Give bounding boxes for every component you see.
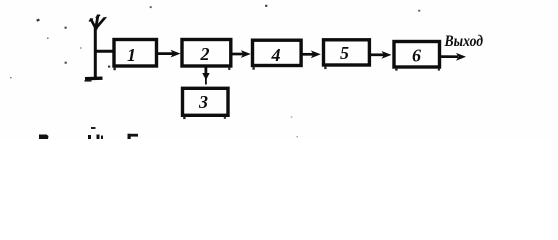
svg-text:3: 3 xyxy=(198,92,208,112)
svg-text:Выход: Выход xyxy=(444,33,483,50)
svg-text:4: 4 xyxy=(271,45,281,65)
noise speck 8 xyxy=(265,5,267,7)
box 2 (mixer) xyxy=(182,40,231,67)
wire output xyxy=(440,55,458,58)
noise speck 3 xyxy=(47,38,49,39)
scan nub box6 corner xyxy=(395,68,397,71)
ground xyxy=(85,76,103,80)
scan nub box3 left corner xyxy=(183,117,185,120)
noise speck 10 xyxy=(291,116,293,117)
noise speck 1 xyxy=(36,18,40,21)
noise speck 9 xyxy=(418,10,420,12)
wire antenna to box 1 xyxy=(94,50,114,53)
wire box1 to box2 xyxy=(157,52,174,55)
noise speck 5 xyxy=(65,62,67,64)
wire box2 to box4 xyxy=(230,53,244,56)
antenna W1 xyxy=(89,15,106,28)
box 1 (input circuit) xyxy=(114,40,157,67)
box 6 (AF amplifier) xyxy=(394,42,440,68)
caption fragment P xyxy=(39,135,49,140)
svg-text:5: 5 xyxy=(340,43,349,63)
wire antenna lead-in xyxy=(94,28,97,78)
caption fragment strokes xyxy=(88,135,91,139)
box 5 (detector) xyxy=(324,40,370,65)
scan nub box2 corner xyxy=(228,68,230,70)
svg-text:6: 6 xyxy=(412,46,421,66)
svg-text:1: 1 xyxy=(127,45,136,65)
noise speck 6 xyxy=(10,77,12,78)
caption fragment dash xyxy=(91,127,96,129)
scan nub box5 corner xyxy=(324,67,326,70)
scan nub box1 corner xyxy=(113,68,115,71)
noise speck 12 xyxy=(108,66,110,68)
scan nub box4 corner xyxy=(252,67,254,70)
wire box4 to box5 xyxy=(301,53,314,56)
noise speck 4 xyxy=(80,47,82,48)
scan nub box3 right corner xyxy=(224,116,226,118)
svg-text:2: 2 xyxy=(200,44,210,64)
noise speck 7 xyxy=(150,6,152,8)
noise speck 11 xyxy=(297,136,298,137)
wire box2 to box3 (arrow down) xyxy=(204,67,207,75)
caption fragment B xyxy=(128,134,139,137)
box 4 (IF amplifier) xyxy=(253,40,302,65)
wire box5 to box6 xyxy=(369,53,384,56)
scan nub box6 right corner xyxy=(438,68,440,70)
noise speck 2 xyxy=(65,27,67,29)
box 3 (local oscillator) xyxy=(183,88,229,115)
